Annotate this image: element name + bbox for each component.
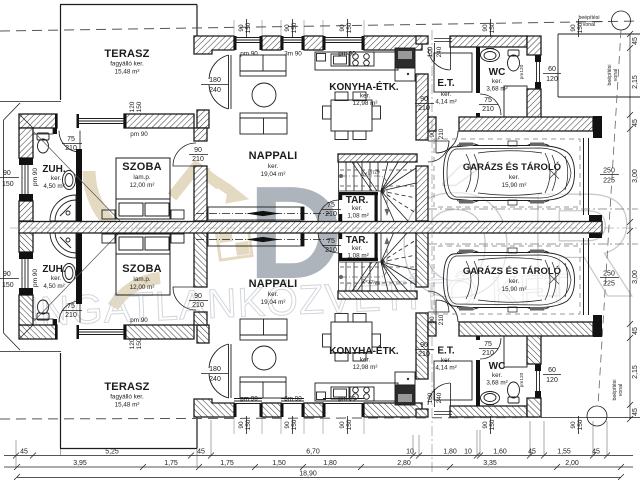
svg-text:SZOBA: SZOBA [122, 263, 162, 275]
svg-text:3,35: 3,35 [483, 460, 497, 467]
svg-text:120: 120 [546, 76, 558, 83]
svg-text:250: 250 [603, 271, 615, 278]
door dim zuh bottom [65, 303, 77, 319]
svg-text:3,68 m²: 3,68 m² [486, 380, 507, 387]
hall band with arrow [196, 207, 330, 220]
svg-text:150: 150 [136, 101, 143, 112]
left exterior wall upper [19, 128, 33, 158]
door dim zuh top [65, 136, 77, 152]
svg-text:ker.: ker. [492, 372, 502, 379]
sofa against wall [240, 55, 286, 76]
svg-text:pm 90: pm 90 [32, 168, 39, 186]
svg-text:NAPPALI: NAPPALI [249, 278, 298, 290]
svg-text:ker.: ker. [492, 78, 502, 85]
svg-text:150: 150 [489, 419, 496, 430]
kitchen east wall mid [416, 74, 428, 140]
svg-text:WC: WC [489, 67, 506, 78]
wc door [480, 94, 501, 115]
room label wc top [486, 67, 507, 93]
partition et wc [476, 47, 480, 93]
svg-text:15,90 m²: 15,90 m² [502, 286, 527, 293]
svg-text:NAPPALI: NAPPALI [249, 150, 298, 162]
svg-text:150: 150 [489, 22, 496, 33]
svg-text:19,04 m²: 19,04 m² [261, 299, 286, 306]
room label zuh bottom [42, 264, 66, 290]
svg-text:150: 150 [577, 419, 584, 430]
left exterior wall lower [19, 201, 33, 221]
svg-text:1,08 m²: 1,08 m² [347, 213, 368, 220]
door dim terasz bottom [209, 366, 221, 383]
svg-text:ker.: ker. [360, 93, 370, 100]
svg-text:90: 90 [3, 170, 11, 177]
svg-text:100: 100 [427, 392, 434, 403]
zuh door leaf and arc [59, 131, 80, 153]
beepitesi vonal rotated right [607, 64, 619, 85]
svg-text:4,50 m²: 4,50 m² [43, 183, 64, 190]
svg-text:2,00: 2,00 [565, 460, 579, 467]
room label tar bottom [346, 235, 369, 260]
stairs cut line [352, 162, 372, 191]
room label konyha top [329, 80, 399, 107]
svg-text:75: 75 [67, 303, 75, 310]
svg-text:45: 45 [632, 119, 639, 127]
bottom dim row A [4, 453, 633, 459]
svg-text:12,98 m²: 12,98 m² [353, 100, 378, 107]
szoba door [173, 143, 196, 166]
svg-text:90: 90 [3, 271, 11, 278]
nightstands [102, 210, 115, 219]
right margin rotated dims [632, 37, 639, 416]
door dim et top [418, 96, 430, 112]
neighbour plot [558, 34, 640, 97]
svg-text:45: 45 [632, 408, 639, 416]
wc toilet [508, 50, 520, 71]
svg-text:2,15: 2,15 [632, 75, 639, 89]
svg-text:120: 120 [129, 338, 136, 349]
survey circle bottom [587, 406, 607, 426]
svg-text:ZUH.: ZUH. [42, 264, 66, 275]
svg-text:45: 45 [592, 449, 600, 456]
svg-text:45: 45 [197, 449, 205, 456]
svg-text:pm120: pm120 [519, 372, 525, 387]
room label zuh top [42, 164, 66, 190]
svg-text:210: 210 [325, 247, 337, 254]
watermark house swoosh [89, 167, 248, 307]
terasz wall dim rotated top [129, 101, 143, 112]
garage centerline [428, 208, 638, 210]
svg-text:ker.: ker. [352, 205, 362, 212]
svg-text:4,14 m²: 4,14 m² [435, 365, 456, 372]
top dwelling unit geometry [0, 5, 638, 227]
svg-text:vonal: vonal [583, 22, 595, 28]
svg-text:1,55: 1,55 [557, 449, 571, 456]
svg-text:3m 90: 3m 90 [284, 396, 302, 403]
left wall window [22, 165, 28, 194]
garage right bottom corner [589, 215, 602, 221]
svg-text:4,14 m²: 4,14 m² [435, 99, 456, 106]
svg-text:TERASZ: TERASZ [104, 381, 149, 393]
svg-text:ker.: ker. [268, 291, 278, 298]
svg-text:vonal: vonal [613, 69, 619, 81]
right wall window jambs [535, 55, 541, 62]
garage door dim rotated bottom [429, 314, 445, 325]
svg-text:210: 210 [482, 350, 494, 357]
svg-text:ZUH.: ZUH. [42, 164, 66, 175]
svg-text:5,25: 5,25 [105, 449, 119, 456]
bottom dims row B [73, 460, 579, 467]
bed szoba [116, 158, 170, 219]
svg-text:210: 210 [65, 312, 77, 319]
svg-text:ker.: ker. [360, 357, 370, 364]
svg-text:3,95: 3,95 [73, 460, 87, 467]
svg-text:150: 150 [291, 22, 298, 33]
svg-text:vonal: vonal [618, 384, 624, 396]
svg-text:45: 45 [632, 327, 639, 335]
fridge [395, 48, 415, 68]
svg-text:ker.: ker. [352, 245, 362, 252]
et garage door [436, 131, 458, 153]
mirrored bottom dwelling unit [0, 227, 638, 449]
nappali top wall pier3 [304, 36, 323, 50]
room label terasz bottom [104, 381, 149, 409]
entry door [428, 47, 451, 70]
jambs top wall [55, 114, 58, 128]
svg-text:210: 210 [192, 156, 204, 163]
svg-text:pm 90: pm 90 [338, 51, 356, 58]
loveseat [240, 113, 287, 134]
svg-text:120: 120 [546, 377, 558, 384]
stairs dashed projection [340, 170, 414, 186]
door dim wc top [482, 97, 494, 113]
stairs winders [381, 162, 416, 221]
svg-text:150: 150 [346, 22, 353, 33]
window extension lines bottom [234, 417, 364, 434]
svg-text:75: 75 [67, 136, 75, 143]
svg-text:90: 90 [482, 421, 489, 429]
svg-text:90: 90 [238, 421, 245, 429]
stairs walk line [339, 174, 389, 216]
svg-text:120: 120 [129, 101, 136, 112]
wc garage band wall [428, 117, 436, 131]
svg-text:pm120: pm120 [519, 64, 525, 79]
room label nappali top [249, 150, 298, 178]
left block top wall right part [124, 114, 194, 128]
svg-text:150: 150 [245, 419, 252, 430]
window extension lines top [234, 20, 364, 36]
svg-text:90: 90 [238, 24, 245, 32]
beepitesi vonal top [578, 15, 599, 28]
svg-text:4,50 m²: 4,50 m² [43, 283, 64, 290]
center axis line [10, 227, 638, 229]
svg-text:45: 45 [632, 37, 639, 45]
svg-text:150: 150 [245, 22, 252, 33]
svg-text:pm 90: pm 90 [32, 269, 39, 287]
svg-text:pm 90: pm 90 [240, 51, 258, 58]
svg-text:75: 75 [327, 202, 335, 209]
terasz window in top wall [79, 119, 124, 124]
svg-text:210: 210 [65, 145, 77, 152]
bottom dims row A [20, 449, 600, 456]
svg-text:180: 180 [209, 77, 221, 84]
toilet zuh [37, 133, 49, 153]
svg-text:1,75: 1,75 [164, 460, 178, 467]
svg-text:240: 240 [436, 392, 443, 403]
pm90 labels bottom [130, 317, 356, 403]
svg-text:90: 90 [420, 96, 428, 103]
window dims rotated top edge [238, 22, 584, 33]
svg-text:240: 240 [209, 87, 221, 94]
svg-text:GARÁZS ÉS TÁROLÓ: GARÁZS ÉS TÁROLÓ [463, 265, 561, 277]
window dim wc bottom [546, 367, 558, 384]
pm90 labels top [130, 51, 356, 139]
svg-text:75: 75 [484, 341, 492, 348]
svg-text:fagyálló ker.: fagyálló ker. [110, 394, 144, 401]
svg-text:ker.: ker. [441, 91, 451, 98]
entry top wall [450, 36, 527, 47]
room label nappali bottom [249, 278, 298, 306]
svg-text:90: 90 [429, 316, 436, 324]
nappali top wall pier2 [262, 36, 281, 50]
svg-text:pm 90: pm 90 [130, 317, 148, 324]
terasz double door [209, 55, 231, 109]
svg-text:3m 90: 3m 90 [284, 51, 302, 58]
svg-text:ker.: ker. [509, 174, 519, 181]
svg-text:E.T.: E.T. [437, 78, 454, 89]
svg-text:150: 150 [291, 419, 298, 430]
svg-text:210: 210 [418, 351, 430, 358]
watermark logo [27, 159, 635, 335]
door dim wc bottom [482, 341, 494, 357]
garage dim top [603, 168, 615, 185]
room label wc bottom [486, 361, 507, 387]
svg-text:3,00: 3,00 [632, 270, 639, 284]
bottom dim row C [14, 474, 624, 480]
tar door [318, 200, 339, 221]
right exterior wall top corner [527, 36, 541, 55]
tar walls [339, 192, 378, 221]
wall lining zuh [33, 128, 53, 134]
svg-text:pm 90: pm 90 [240, 396, 258, 403]
svg-text:ker.: ker. [509, 278, 519, 285]
svg-text:210: 210 [192, 302, 204, 309]
kitchen east wall top [416, 36, 428, 44]
svg-text:210: 210 [418, 105, 430, 112]
car [444, 141, 575, 205]
right exterior wall lower [527, 89, 541, 131]
sink zuh [63, 171, 76, 190]
garage door frame [584, 138, 589, 215]
building line top dashed [0, 21, 640, 31]
entry dim rotated bottom [427, 392, 443, 403]
wc storage box [504, 86, 527, 117]
wc sink [481, 49, 500, 62]
svg-text:KONYHA-ÉTK.: KONYHA-ÉTK. [329, 80, 399, 93]
stairs treads [339, 162, 382, 221]
terasz wall below door [197, 110, 209, 128]
terasz wall dim rotated bottom [129, 338, 143, 349]
bottom right boundary [541, 417, 640, 419]
svg-text:WC: WC [489, 361, 506, 372]
shower zuh [50, 195, 76, 221]
chamfer corner line [4, 103, 21, 120]
window dim wc top [546, 66, 558, 83]
garage door dim rotated top [429, 128, 445, 139]
svg-text:240: 240 [209, 376, 221, 383]
svg-text:1,80: 1,80 [443, 449, 457, 456]
roof slope line [34, 132, 120, 221]
svg-text:45: 45 [20, 449, 28, 456]
svg-text:225: 225 [603, 178, 615, 185]
terasz boundary lines [60, 5, 197, 101]
svg-text:18,90: 18,90 [299, 471, 317, 478]
beepitesi vonal rotated bottom right [612, 379, 624, 400]
svg-text:180: 180 [209, 366, 221, 373]
svg-text:12,00 m²: 12,00 m² [130, 284, 155, 291]
svg-text:19,04 m²: 19,04 m² [261, 171, 286, 178]
svg-text:75: 75 [327, 238, 335, 245]
svg-text:ker.: ker. [51, 175, 61, 182]
slanted building line [598, 30, 621, 406]
extension lines bottom [16, 420, 607, 467]
svg-text:E.T.: E.T. [437, 346, 454, 357]
windows glazing top wall [234, 38, 364, 43]
room label szoba bottom [122, 263, 162, 291]
svg-text:90: 90 [339, 421, 346, 429]
door dim tar top [325, 202, 337, 218]
garage right top corner [593, 116, 602, 138]
room label garazs top [463, 161, 561, 189]
left margin dims top [2, 170, 14, 188]
svg-text:90: 90 [482, 24, 489, 32]
svg-text:ker.: ker. [441, 357, 451, 364]
wardrobe et [434, 53, 472, 92]
entry dim rotated top [427, 46, 443, 57]
svg-text:250: 250 [603, 168, 615, 175]
svg-text:90: 90 [570, 421, 577, 429]
svg-text:TERASZ: TERASZ [104, 48, 149, 60]
garage door dim lines [600, 175, 619, 278]
window dims rotated bottom edge [238, 419, 584, 430]
svg-text:60: 60 [548, 367, 556, 374]
svg-text:45: 45 [528, 449, 536, 456]
left margin dim lines [0, 178, 19, 279]
et axis dashdot [431, 30, 433, 473]
svg-text:90: 90 [570, 24, 577, 32]
west wall lower segment [194, 166, 207, 221]
survey circle top [612, 11, 631, 30]
svg-text:15,48 m²: 15,48 m² [115, 69, 140, 76]
svg-text:10: 10 [464, 449, 472, 456]
svg-text:1,80: 1,80 [323, 460, 337, 467]
svg-text:90: 90 [339, 24, 346, 32]
svg-text:2,15: 2,15 [632, 365, 639, 379]
room label tar top [346, 195, 369, 220]
svg-text:210: 210 [482, 106, 494, 113]
dining table [323, 92, 381, 140]
left margin dims bottom [2, 271, 14, 289]
svg-text:10: 10 [406, 449, 414, 456]
parking dashed box [434, 139, 580, 207]
svg-text:12,98 m²: 12,98 m² [353, 364, 378, 371]
room label konyha bottom [329, 344, 399, 371]
svg-text:150: 150 [2, 282, 14, 289]
svg-text:210: 210 [325, 211, 337, 218]
room label szoba top [122, 161, 162, 189]
svg-text:100: 100 [427, 46, 434, 57]
storage cross [549, 169, 559, 179]
garage dim bottom [603, 271, 615, 288]
party wall band [19, 222, 602, 234]
right wall window [537, 62, 540, 82]
svg-text:15,90 m²: 15,90 m² [502, 182, 527, 189]
svg-text:3,00: 3,00 [632, 169, 639, 183]
svg-text:90: 90 [420, 342, 428, 349]
svg-text:90: 90 [194, 147, 202, 154]
door dim tar bottom [325, 238, 337, 254]
svg-text:150: 150 [2, 181, 14, 188]
svg-text:6,70: 6,70 [306, 449, 320, 456]
windows glazing bottom wall [234, 399, 364, 404]
svg-text:90: 90 [194, 293, 202, 300]
svg-text:KONYHA-ÉTK.: KONYHA-ÉTK. [329, 344, 399, 357]
svg-text:1,08 m²: 1,08 m² [347, 253, 368, 260]
right dim chain [627, 31, 633, 422]
svg-text:pm 90: pm 90 [130, 131, 148, 138]
kitchen top wall [364, 36, 422, 50]
svg-text:240: 240 [436, 46, 443, 57]
room label et bottom [435, 346, 456, 372]
svg-text:ker.: ker. [268, 163, 278, 170]
svg-text:210: 210 [438, 128, 445, 139]
svg-text:SZOBA: SZOBA [122, 161, 162, 173]
svg-text:1,75: 1,75 [220, 460, 234, 467]
svg-text:lam.p.: lam.p. [133, 174, 150, 181]
room label et top [435, 78, 456, 106]
svg-text:150: 150 [136, 338, 143, 349]
partition zuh szoba [76, 149, 82, 221]
corner mitre [19, 114, 33, 128]
door dim terasz top [209, 77, 221, 94]
svg-text:1,60: 1,60 [493, 449, 507, 456]
svg-text:12,00 m²: 12,00 m² [130, 182, 155, 189]
building line bottom dashed [0, 418, 541, 420]
terasz outside step line [0, 101, 61, 103]
svg-text:15,48 m²: 15,48 m² [115, 402, 140, 409]
svg-text:225: 225 [603, 281, 615, 288]
room label terasz top [104, 48, 149, 76]
svg-text:90: 90 [284, 24, 291, 32]
watermark house window [216, 224, 252, 260]
svg-text:2,80: 2,80 [397, 460, 411, 467]
svg-text:pm 90: pm 90 [338, 396, 356, 403]
left block top wall left part [19, 114, 57, 128]
svg-text:90: 90 [429, 130, 436, 138]
svg-text:ker.: ker. [51, 275, 61, 282]
svg-text:GARÁZS ÉS TÁROLÓ: GARÁZS ÉS TÁROLÓ [463, 161, 561, 173]
svg-text:210: 210 [438, 314, 445, 325]
svg-text:90: 90 [284, 421, 291, 429]
kitchen east wall low [416, 166, 428, 221]
kitchen counter [315, 52, 398, 70]
west wall segment [194, 128, 207, 141]
door dim et bottom [418, 342, 430, 358]
door dim szoba bottom [192, 293, 204, 309]
bottom dim row B [4, 464, 633, 470]
svg-text:60: 60 [548, 66, 556, 73]
svg-text:fagyálló ker.: fagyálló ker. [110, 61, 144, 68]
svg-text:lam.p.: lam.p. [133, 276, 150, 283]
stairs top wall [338, 154, 417, 162]
